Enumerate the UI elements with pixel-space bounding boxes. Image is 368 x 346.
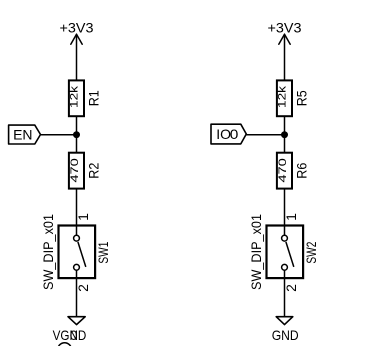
svg-text:2: 2 <box>283 284 299 292</box>
SW2 internal lead bottom and wire to GND <box>284 270 286 317</box>
SW1 top contact circle <box>74 235 80 241</box>
wire R6 to SW2 pin 1 <box>284 189 286 226</box>
svg-text:2: 2 <box>75 284 91 292</box>
switch SW2 body <box>267 226 304 279</box>
svg-text:0: 0 <box>230 126 239 142</box>
svg-text:R2: R2 <box>85 163 101 179</box>
junction dot node EN <box>73 131 80 138</box>
power +3V3 (left) arrow symbol <box>71 34 82 44</box>
wire R2 to SW1 pin 1 <box>76 189 78 226</box>
SW2 lever <box>286 242 294 267</box>
SW1 bottom contact circle <box>74 264 80 270</box>
SW2 internal lead top <box>284 226 286 236</box>
svg-text:EN: EN <box>13 127 32 143</box>
svg-text:SW1: SW1 <box>95 241 111 263</box>
svg-text:+3V3: +3V3 <box>60 20 94 36</box>
partially visible circle below left ground <box>58 343 72 346</box>
svg-text:R5: R5 <box>293 90 309 106</box>
svg-text:R6: R6 <box>293 163 309 179</box>
svg-text:1: 1 <box>75 213 91 221</box>
svg-text:SW_DIP_x01: SW_DIP_x01 <box>40 214 56 290</box>
wire +3V3 to R1 (left) <box>76 34 78 80</box>
wire +3V3 to R5 (right) <box>284 34 286 80</box>
resistor R6 body <box>277 153 292 189</box>
resistor R2 body <box>69 153 84 189</box>
SW1 internal lead top <box>76 226 78 236</box>
wire IO0 flag to junction <box>246 134 284 136</box>
junction dot node IO0 <box>281 131 288 138</box>
switch SW1 body <box>59 226 96 279</box>
svg-text:+3V3: +3V3 <box>268 20 302 36</box>
svg-text:12k: 12k <box>69 85 81 108</box>
resistor R1 body <box>69 80 84 116</box>
svg-text:470: 470 <box>277 158 289 183</box>
ground symbol (left) <box>68 317 85 325</box>
SW1 internal lead bottom and wire to GND <box>76 270 78 317</box>
ground symbol (right) <box>276 317 293 325</box>
SW2 bottom contact circle <box>282 264 288 270</box>
svg-text:GND: GND <box>272 327 299 343</box>
SW1 lever <box>78 242 86 267</box>
svg-text:0: 0 <box>70 327 78 343</box>
svg-text:12k: 12k <box>277 85 289 108</box>
resistor R5 body <box>277 80 292 116</box>
wire R5 to node IO0 <box>284 116 286 153</box>
svg-text:R1: R1 <box>85 90 101 106</box>
global label IO0 flag outline <box>211 124 246 144</box>
svg-text:SW_DIP_x01: SW_DIP_x01 <box>248 214 264 290</box>
svg-text:470: 470 <box>69 158 81 183</box>
wire R1 to node EN <box>76 116 78 153</box>
power +3V3 (right) arrow symbol <box>279 34 290 44</box>
global label EN flag outline <box>9 125 41 144</box>
wire EN flag to junction <box>41 134 77 136</box>
SW2 top contact circle <box>282 235 288 241</box>
svg-text:SW2: SW2 <box>303 241 319 263</box>
svg-text:1: 1 <box>283 213 299 221</box>
